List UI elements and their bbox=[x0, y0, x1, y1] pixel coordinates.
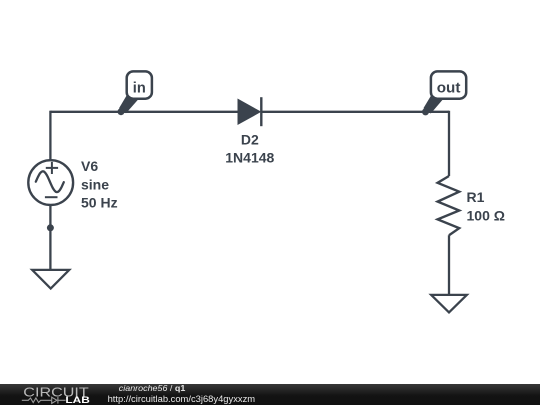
node flag "in" pointer tail bbox=[119, 94, 143, 113]
node "out" junction dot bbox=[422, 108, 429, 115]
wire left vertical (top node down to V6 plus terminal) bbox=[49, 111, 51, 161]
node "in" junction dot bbox=[118, 108, 125, 115]
svg-text:1N4148: 1N4148 bbox=[225, 149, 274, 165]
node flag "out" pointer tail bbox=[423, 94, 447, 114]
label R1 value text bbox=[467, 189, 505, 223]
resistor R1 zigzag bbox=[438, 176, 460, 235]
footer black bar bbox=[0, 384, 540, 405]
label V6 value text bbox=[81, 158, 118, 210]
voltage source V6 circle bbox=[28, 160, 73, 205]
footer credit line (user / circuit name) bbox=[108, 383, 256, 405]
ground symbol right bbox=[431, 295, 467, 313]
footer logo LAB wordmark bbox=[65, 395, 89, 405]
ground symbol left bbox=[32, 270, 69, 289]
node flag "in" box bbox=[127, 71, 152, 98]
footer logo circuit symbol (resistor + diode line) bbox=[22, 397, 66, 404]
svg-text:sine: sine bbox=[81, 177, 109, 193]
V6 sine waveform bbox=[36, 171, 64, 192]
svg-text:http://circuitlab.com/c3j68y4g: http://circuitlab.com/c3j68y4gyxxzm bbox=[108, 394, 256, 405]
V6 plus sign bbox=[46, 162, 58, 174]
wire top horizontal left segment (in node to diode anode) bbox=[50, 111, 238, 113]
node junction dot below V6 bbox=[47, 224, 54, 231]
svg-text:LAB: LAB bbox=[65, 395, 89, 405]
svg-text:50 Hz: 50 Hz bbox=[81, 194, 118, 210]
wire R1 bottom to ground bbox=[448, 235, 450, 295]
svg-text:100 Ω: 100 Ω bbox=[467, 208, 505, 224]
wire V6 minus terminal down to ground bbox=[49, 206, 51, 270]
label D2 value text bbox=[225, 131, 274, 165]
footer logo CIRCUIT wordmark bbox=[23, 384, 89, 399]
svg-text:V6: V6 bbox=[81, 158, 98, 174]
svg-text:R1: R1 bbox=[467, 189, 485, 205]
svg-text:in: in bbox=[133, 80, 146, 96]
wire right vertical (out node down to R1) bbox=[448, 111, 450, 176]
node flag "out" box bbox=[431, 71, 466, 98]
diode D2 cathode bar bbox=[260, 97, 262, 126]
svg-text:out: out bbox=[437, 79, 461, 96]
wire top horizontal right segment (diode cathode to out node) bbox=[261, 111, 449, 113]
svg-text:cianroche56 / q1: cianroche56 / q1 bbox=[119, 383, 186, 393]
svg-text:D2: D2 bbox=[241, 131, 259, 147]
V6 minus sign bbox=[45, 196, 58, 198]
diode D2 anode triangle bbox=[238, 99, 260, 124]
